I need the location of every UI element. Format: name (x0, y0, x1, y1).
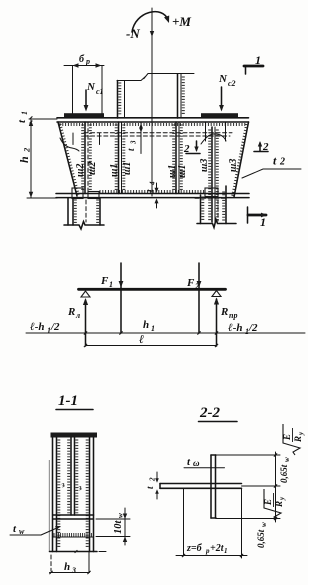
section 1-1 right wall (86, 438, 94, 552)
svg-text:10t: 10t (113, 520, 124, 535)
cap left slant edge (58, 122, 80, 196)
svg-text:R: R (274, 501, 284, 508)
upper column left flange (118, 81, 125, 119)
rib B with weld Sh1 (115, 122, 126, 194)
right dimension line (274, 452, 277, 522)
svg-text:F: F (186, 277, 195, 289)
dimension h3 (49, 552, 90, 576)
label t2 with leader (242, 154, 301, 179)
cap right slant edge (231, 122, 248, 197)
left bearing rib (width b_p) (73, 66, 103, 114)
section 1-1 web (67, 438, 78, 516)
svg-text:1: 1 (151, 324, 155, 333)
section 1-1 weld row (53, 533, 94, 537)
lower column (right) (195, 186, 236, 228)
rib C with weld Sh1 (172, 122, 183, 194)
weld label Sh1 (rib B left) (109, 164, 120, 177)
svg-text:R: R (67, 306, 75, 318)
section 1-1 horizontal plate (53, 515, 94, 519)
svg-text:c1: c1 (96, 87, 104, 96)
beam line (force scheme) (79, 288, 226, 291)
svg-text:3: 3 (71, 566, 76, 575)
weld label Sh2 right (87, 162, 98, 175)
svg-text:/2: /2 (248, 322, 258, 334)
svg-text:ш3: ш3 (228, 159, 239, 172)
svg-text:2: 2 (149, 477, 157, 482)
upper column right flange (178, 74, 185, 118)
rib D with weld Sh3 (208, 127, 219, 222)
svg-text:R: R (293, 436, 303, 443)
svg-text:+M: +M (172, 14, 191, 29)
svg-text:w: w (283, 457, 291, 462)
svg-text:1: 1 (20, 111, 29, 115)
svg-text:ш3: ш3 (199, 159, 210, 172)
svg-text:1: 1 (109, 280, 113, 289)
section mark 2 (down) (183, 141, 200, 155)
svg-text:R: R (220, 306, 228, 318)
svg-text:ш2: ш2 (87, 162, 98, 175)
hidden verticals under left bearing plate (73, 133, 100, 145)
svg-text:1-1: 1-1 (58, 393, 78, 409)
svg-text:F: F (100, 275, 109, 287)
svg-text:c2: c2 (228, 79, 236, 88)
svg-text:2-2: 2-2 (199, 405, 220, 421)
svg-text:h: h (143, 319, 149, 331)
cap bottom plate t4 (56, 190, 249, 198)
svg-text:h: h (64, 561, 70, 573)
section 2-2 horizontal plate (160, 484, 242, 489)
force N_c1 (84, 81, 104, 112)
rib A with weld Sh2 (81, 122, 92, 194)
svg-text:ℓ: ℓ (139, 332, 144, 346)
dimension t3 (126, 122, 143, 154)
support left (triangle) (81, 291, 90, 297)
svg-text:2: 2 (22, 147, 32, 153)
svg-text:р: р (85, 57, 90, 66)
section title 1-1 (56, 393, 93, 410)
svg-text:w: w (260, 522, 268, 527)
dimension line (l-h1)/2, h1 (26, 319, 305, 336)
section 1-1 cap plate (51, 433, 98, 438)
dimension t1 (16, 111, 32, 123)
svg-text:пр: пр (229, 311, 237, 320)
label t_w with leader (10, 523, 61, 536)
support right (triangle) (212, 291, 221, 297)
svg-text:ш2: ш2 (75, 164, 86, 177)
dimension z = b_p + 2t1 (176, 488, 247, 558)
section mark 2 (up) (254, 141, 269, 153)
dimension text 0,65tw sqrt(E/Ry) lower (256, 522, 268, 548)
section title 2-2 (199, 405, 238, 422)
dimension b_p (64, 54, 104, 68)
upper column cut line with break (117, 74, 194, 81)
moment arrow +M (132, 12, 191, 32)
svg-text:0,65t: 0,65t (256, 529, 266, 548)
weld label Sh1 (rib C left) (167, 165, 178, 178)
section mark 1 (top) (244, 53, 263, 74)
label t_omega (184, 456, 225, 468)
hidden verticals under right bearing plate (206, 122, 226, 141)
reaction R_pr (214, 298, 238, 347)
svg-text:1: 1 (255, 53, 261, 67)
svg-text:-N: -N (126, 26, 140, 41)
svg-text:0,65t: 0,65t (279, 464, 289, 483)
dimension l (total) (84, 332, 218, 347)
svg-text:E: E (263, 499, 273, 506)
force F1 (100, 263, 123, 333)
svg-text:ш1: ш1 (177, 165, 188, 178)
section mark 1 (bottom) (248, 207, 268, 229)
dimension 10t_w (96, 508, 130, 545)
weld label Sh2 left (75, 164, 86, 177)
weld mark z (right) (76, 483, 82, 493)
svg-text:2: 2 (279, 157, 285, 168)
svg-text:N: N (86, 81, 96, 93)
weld label Sh3 left (199, 159, 210, 172)
svg-text:л: л (75, 311, 80, 320)
svg-text:E: E (282, 434, 292, 441)
svg-text:+2t: +2t (210, 543, 225, 554)
svg-text:ℓ-h: ℓ-h (30, 321, 44, 333)
dimension text 0,65tw sqrt(E/Ry) upper (279, 457, 291, 483)
svg-text:ω: ω (193, 458, 200, 468)
svg-text:N: N (218, 73, 228, 85)
svg-text:h: h (17, 156, 31, 163)
wire: column center axis (150, 8, 154, 196)
left bearing plate (64, 113, 104, 117)
svg-text:4: 4 (149, 181, 157, 186)
svg-text:ш1: ш1 (122, 162, 133, 175)
hidden line under plate (double) (84, 133, 232, 136)
dimension t4 (145, 181, 159, 208)
dimension h2 (17, 119, 57, 198)
section 2-2 rib plate (211, 455, 216, 518)
cap top plate t1 (57, 118, 249, 126)
force F2 (186, 263, 201, 333)
section 1-1 bottom edge (50, 550, 107, 553)
reaction R_l (67, 298, 88, 346)
section 1-1 left wall (49, 438, 60, 552)
svg-text:1: 1 (260, 215, 266, 229)
weld leader curve (left) (60, 138, 79, 151)
svg-text:3: 3 (130, 140, 138, 145)
right bearing plate (201, 113, 238, 117)
weld label Sh1 (rib B right) (122, 162, 133, 175)
weld label Sh3 right (228, 159, 239, 172)
svg-text:1: 1 (224, 547, 228, 555)
svg-text:z=б: z=б (186, 543, 203, 554)
force label -N (126, 26, 140, 41)
weld mark z (left) (59, 480, 65, 490)
weld label Sh1 (rib C right) (177, 165, 188, 178)
lower column (left) (64, 188, 104, 229)
svg-text:ш1: ш1 (109, 164, 120, 177)
right dimension extension lines (216, 455, 280, 519)
local cut wavy line at rib D top (201, 134, 226, 144)
dimension t2 (plate thickness) (145, 472, 159, 499)
force N_c2 (218, 73, 236, 112)
svg-text:/2: /2 (50, 321, 60, 333)
svg-text:ℓ-h: ℓ-h (228, 322, 242, 334)
